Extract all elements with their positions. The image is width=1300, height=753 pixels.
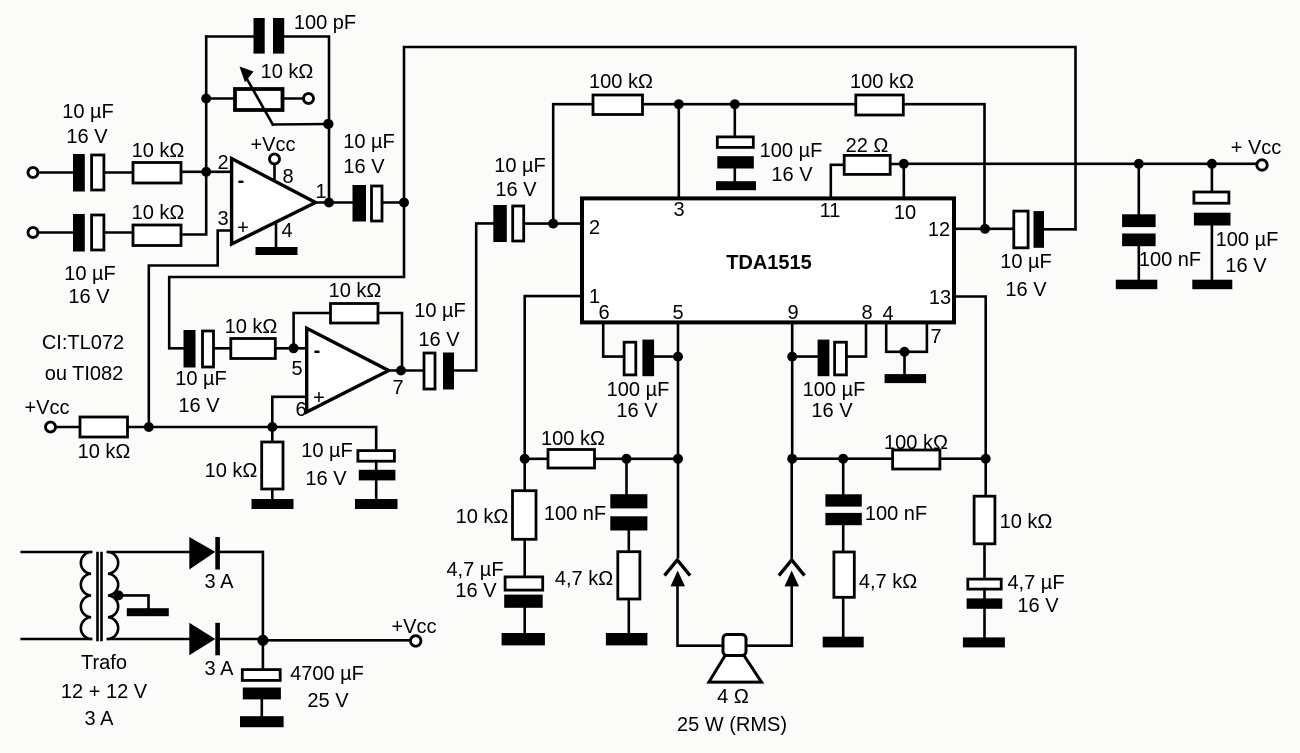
svg-text:10 kΩ: 10 kΩ	[1000, 511, 1053, 533]
svg-text:4 Ω: 4 Ω	[717, 686, 749, 708]
node pot left junction	[201, 94, 211, 104]
svg-text:+Vcc: +Vcc	[250, 134, 295, 156]
resistor 22 Ohm	[844, 155, 890, 174]
svg-text:4,7 µF: 4,7 µF	[446, 559, 503, 581]
wire to node	[382, 201, 404, 204]
node: summing junction pin2	[201, 167, 211, 177]
resistor 10k input A	[133, 163, 181, 184]
wire pin6 stem	[603, 322, 624, 356]
svg-text:16 V: 16 V	[68, 286, 110, 308]
wire output pin7	[389, 369, 424, 372]
svg-text:100 kΩ: 100 kΩ	[884, 432, 948, 454]
capacitor 100nF right	[825, 459, 861, 552]
wire D1 to node	[220, 552, 263, 640]
capacitor 100uF ripple	[717, 104, 754, 181]
svg-text:ou TI082: ou TI082	[45, 363, 124, 385]
capacitor 10uF to pin2	[493, 205, 523, 242]
ground 4.7uF right	[963, 637, 1005, 647]
capacitor 100nF left	[610, 459, 647, 552]
capacitor 100uF pin8	[792, 322, 866, 376]
svg-text:8: 8	[282, 166, 293, 188]
wire pin4 stem	[275, 223, 278, 248]
node pot right junction	[323, 119, 333, 129]
node rail pin5	[673, 454, 683, 464]
wire	[56, 426, 80, 429]
wire pin5 vertical	[677, 322, 680, 459]
wire pin11 stem	[831, 165, 844, 199]
resistor 10k left bottom	[513, 459, 537, 577]
svg-text:TDA1515: TDA1515	[726, 252, 812, 274]
svg-text:16 V: 16 V	[495, 179, 537, 201]
svg-text:16 V: 16 V	[1005, 279, 1047, 301]
svg-text:100 nF: 100 nF	[544, 503, 606, 525]
speaker feed right arrow	[746, 459, 805, 646]
node output pin1	[324, 198, 334, 208]
svg-text:25 V: 25 V	[307, 690, 349, 712]
svg-text:-: -	[314, 340, 321, 362]
svg-text:3 A: 3 A	[205, 658, 235, 680]
svg-text:16 V: 16 V	[66, 126, 108, 148]
svg-text:100 kΩ: 100 kΩ	[589, 71, 653, 93]
op-amp U1a	[232, 159, 316, 245]
svg-text:4,7 kΩ: 4,7 kΩ	[555, 568, 613, 590]
svg-text:8: 8	[861, 302, 872, 324]
node pin9 cap	[787, 352, 797, 362]
capacitor 100pF	[254, 18, 285, 54]
wire top rail right down to pin12	[903, 104, 984, 229]
transformer primary winding	[81, 552, 91, 639]
wire right rail	[792, 457, 892, 460]
resistor 4.7k right	[834, 552, 854, 597]
wire pot right	[282, 97, 303, 100]
svg-text:2: 2	[217, 152, 228, 174]
wire	[104, 171, 133, 174]
+Vcc terminal U1a	[270, 154, 280, 164]
wire	[214, 347, 231, 350]
svg-text:100 µF: 100 µF	[607, 379, 670, 401]
svg-text:5: 5	[672, 302, 683, 324]
diode D1 3A	[189, 537, 220, 570]
svg-text:10 kΩ: 10 kΩ	[225, 316, 278, 338]
svg-text:100 nF: 100 nF	[1139, 249, 1201, 271]
svg-text:CI:TL072: CI:TL072	[42, 332, 124, 354]
ground 100nF supply	[1116, 280, 1158, 290]
svg-text:10 µF: 10 µF	[494, 155, 546, 177]
wire	[181, 171, 232, 174]
ground 100uF supply	[1192, 280, 1232, 290]
op-amp U1b	[307, 328, 389, 412]
wire cap to pin2	[524, 222, 582, 225]
svg-text:100 µF: 100 µF	[760, 140, 823, 162]
pot wiper terminal	[304, 94, 314, 104]
node pin10	[899, 159, 909, 169]
capacitor 100uF supply	[1194, 164, 1231, 280]
wire secondary bottom	[108, 638, 189, 641]
svg-text:6: 6	[295, 399, 306, 421]
svg-text:22 Ω: 22 Ω	[846, 135, 889, 157]
svg-text:10 kΩ: 10 kΩ	[329, 280, 382, 302]
node 100uF supply	[1207, 159, 1217, 169]
wire pin7 stem	[905, 322, 927, 352]
wire pin6	[272, 397, 306, 427]
ground 4.7uF left	[502, 633, 545, 645]
wire pot left	[206, 97, 236, 100]
capacitor 4.7uF right	[967, 579, 1003, 637]
node pin5	[289, 343, 299, 353]
svg-text:+: +	[237, 217, 249, 239]
wire +Vcc rail right	[904, 163, 1257, 166]
svg-text:100 nF: 100 nF	[865, 503, 927, 525]
svg-text:4,7 µF: 4,7 µF	[1007, 572, 1064, 594]
svg-text:+ Vcc: + Vcc	[1231, 137, 1282, 159]
input terminal A	[28, 168, 38, 178]
diode D2 3A	[189, 623, 220, 656]
wire 4.7k right to gnd	[842, 597, 845, 636]
wire long top rail to power amp input	[404, 47, 1076, 229]
IC TDA1515	[582, 198, 954, 322]
svg-text:16 V: 16 V	[1225, 255, 1267, 277]
svg-text:13: 13	[929, 287, 951, 309]
svg-text:-: -	[238, 170, 245, 192]
svg-text:10 kΩ: 10 kΩ	[205, 460, 258, 482]
svg-text:10 kΩ: 10 kΩ	[132, 140, 185, 162]
svg-text:16 V: 16 V	[771, 164, 813, 186]
svg-text:16 V: 16 V	[811, 400, 853, 422]
svg-text:12: 12	[928, 219, 950, 241]
svg-text:100 kΩ: 100 kΩ	[541, 428, 605, 450]
node center tap	[114, 590, 124, 600]
wire from 100pF	[282, 37, 330, 203]
svg-text:12 + 12 V: 12 + 12 V	[61, 681, 148, 703]
wire pin4 stem	[886, 322, 904, 352]
svg-text:16 V: 16 V	[418, 329, 460, 351]
input terminal B	[28, 228, 38, 238]
svg-text:10 µF: 10 µF	[1000, 251, 1052, 273]
wire pin10 stem	[902, 164, 905, 199]
node 100nF	[1134, 159, 1144, 169]
speaker feed left arrow	[665, 459, 724, 646]
ground 4.7k left	[606, 633, 648, 645]
resistor 100k left bottom	[548, 450, 595, 469]
ground pin4-7	[885, 374, 927, 383]
svg-text:16 V: 16 V	[343, 156, 385, 178]
svg-text:10 kΩ: 10 kΩ	[456, 506, 509, 528]
svg-text:10: 10	[894, 202, 916, 224]
capacitor 10uF bias to gnd	[358, 451, 396, 499]
svg-text:4: 4	[882, 303, 893, 325]
resistor 10k right bottom	[974, 459, 995, 579]
ground center tap	[127, 608, 169, 616]
capacitor 100uF pin6	[624, 340, 654, 377]
wire	[104, 231, 133, 234]
node rail 100nF	[622, 454, 632, 464]
svg-text:100 µF: 100 µF	[803, 379, 866, 401]
resistor 100k left top	[593, 95, 643, 115]
+Vcc terminal right	[1257, 160, 1267, 170]
svg-text:100 kΩ: 100 kΩ	[850, 71, 914, 93]
svg-text:3 A: 3 A	[205, 571, 235, 593]
wire pin5 up to feedback	[294, 313, 331, 348]
svg-text:4700 µF: 4700 µF	[290, 663, 364, 685]
resistor 10k feedback U1b	[331, 304, 379, 324]
wire primary top	[22, 551, 91, 554]
speaker 4 ohm	[709, 635, 762, 683]
svg-text:+Vcc: +Vcc	[24, 397, 69, 419]
wire to pin5	[275, 347, 306, 350]
svg-text:3: 3	[217, 208, 228, 230]
svg-text:Trafo: Trafo	[81, 652, 127, 674]
wire pin12	[954, 228, 1014, 231]
node pin2	[548, 219, 558, 229]
node rail 100nF right	[838, 454, 848, 464]
svg-text:10 kΩ: 10 kΩ	[78, 441, 131, 463]
capacitor 10uF output U1b	[424, 353, 454, 390]
svg-text:11: 11	[820, 200, 841, 222]
ground ripple cap	[716, 181, 756, 190]
wire to ground	[903, 352, 906, 374]
wire pin1 down	[525, 296, 582, 459]
wire pin13 down	[954, 297, 986, 459]
wire to 100pF	[206, 35, 253, 38]
svg-text:16 V: 16 V	[616, 400, 658, 422]
svg-text:10 kΩ: 10 kΩ	[261, 61, 314, 83]
ground bias cap	[355, 499, 398, 509]
svg-text:3 A: 3 A	[85, 708, 115, 730]
svg-text:100 µF: 100 µF	[1216, 229, 1279, 251]
wire	[38, 171, 72, 174]
ground 4700uF	[240, 716, 284, 727]
wire down to opamp2 loop	[169, 203, 404, 349]
svg-text:10 µF: 10 µF	[343, 131, 395, 153]
node bias pin6	[267, 422, 277, 432]
ground U1a	[256, 247, 298, 255]
wire left rail	[525, 457, 548, 460]
svg-text:10 µF: 10 µF	[301, 440, 353, 462]
node rail pin9	[787, 454, 797, 464]
capacitor 4.7uF left	[504, 577, 543, 633]
wire D2 to +Vcc	[220, 639, 411, 640]
capacitor 10uF input U1b	[184, 330, 214, 368]
capacitor 10uF/16V input A	[73, 154, 104, 192]
node pin3 stem	[674, 99, 684, 109]
capacitor 4700uF	[242, 640, 281, 716]
wire output	[316, 201, 353, 204]
wire feedback right	[378, 313, 402, 371]
wire pin3 path	[149, 231, 232, 428]
wire Vcc stem	[273, 164, 276, 181]
svg-text:16 V: 16 V	[455, 580, 497, 602]
svg-text:100 pF: 100 pF	[294, 12, 356, 34]
resistor 10k to ground	[262, 427, 283, 499]
resistor 4.7k left	[618, 552, 640, 599]
wire pin3 stem	[677, 104, 680, 198]
node pin7 out	[396, 366, 406, 376]
wire cap to pin5 line	[654, 355, 678, 358]
svg-text:5: 5	[291, 358, 302, 380]
svg-text:4: 4	[281, 220, 292, 242]
transformer secondary winding	[108, 552, 118, 639]
node rail pin13	[981, 454, 991, 464]
wire bias rail	[128, 427, 377, 451]
wire primary bottom	[22, 638, 91, 641]
resistor 10k from Vcc	[80, 417, 128, 437]
+Vcc supply terminal	[411, 636, 421, 646]
potentiometer 10k	[235, 67, 328, 125]
wire 4.7k to gnd	[627, 599, 630, 633]
wire secondary top	[108, 551, 189, 554]
ground 4.7k right	[823, 637, 864, 648]
svg-text:6: 6	[598, 302, 609, 324]
wire	[38, 231, 72, 234]
svg-text:7: 7	[392, 377, 403, 399]
wire top rail middle	[643, 103, 856, 106]
wire to summing node	[181, 172, 206, 235]
svg-text:10 kΩ: 10 kΩ	[132, 202, 185, 224]
node pin4-7	[900, 347, 910, 357]
resistor 100k right top	[856, 95, 904, 115]
wire 22R to pin10	[890, 163, 904, 166]
capacitor 100nF supply	[1122, 164, 1156, 280]
svg-text:10 µF: 10 µF	[414, 300, 466, 322]
capacitor 10uF to pin12	[1014, 211, 1044, 248]
wire center tap	[119, 595, 149, 608]
svg-text:3: 3	[673, 199, 684, 221]
node bias pin3	[144, 422, 154, 432]
svg-text:7: 7	[930, 326, 941, 348]
resistor 10k series U1b	[231, 339, 275, 359]
wire rail to pin5	[595, 457, 679, 460]
wire pin9 vertical	[791, 322, 794, 458]
svg-text:10 µF: 10 µF	[64, 263, 116, 285]
node rail pin1	[520, 454, 530, 464]
wire up to TDA input cap	[454, 223, 493, 370]
svg-text:25 W (RMS): 25 W (RMS)	[677, 714, 787, 736]
wire pin2 up and top rail	[553, 104, 593, 223]
node preamp out	[399, 198, 409, 208]
ground bias resistor	[252, 499, 294, 509]
capacitor 10uF/16V input B	[73, 214, 104, 252]
wire cap to preamp line	[1044, 228, 1076, 231]
resistor 100k right bottom	[893, 450, 940, 469]
resistor 10k input B	[133, 225, 181, 246]
node rectifier output	[257, 635, 268, 646]
svg-text:16 V: 16 V	[178, 395, 220, 417]
svg-text:10 µF: 10 µF	[175, 368, 227, 390]
svg-text:16 V: 16 V	[1017, 595, 1059, 617]
+Vcc bias terminal	[46, 422, 56, 432]
svg-text:16 V: 16 V	[305, 468, 347, 490]
svg-text:9: 9	[787, 302, 798, 324]
node 100uF stem	[730, 99, 740, 109]
node pin12	[980, 224, 990, 234]
svg-text:2: 2	[589, 217, 600, 239]
node pin5 line cap	[673, 352, 683, 362]
wire feedback left vertical	[205, 37, 208, 172]
svg-text:+: +	[313, 387, 325, 409]
transformer core	[98, 553, 102, 640]
wire rail to pin13	[940, 457, 986, 460]
svg-text:4,7 kΩ: 4,7 kΩ	[859, 571, 917, 593]
svg-text:10 µF: 10 µF	[62, 101, 114, 123]
capacitor 10uF output U1a	[353, 185, 383, 222]
